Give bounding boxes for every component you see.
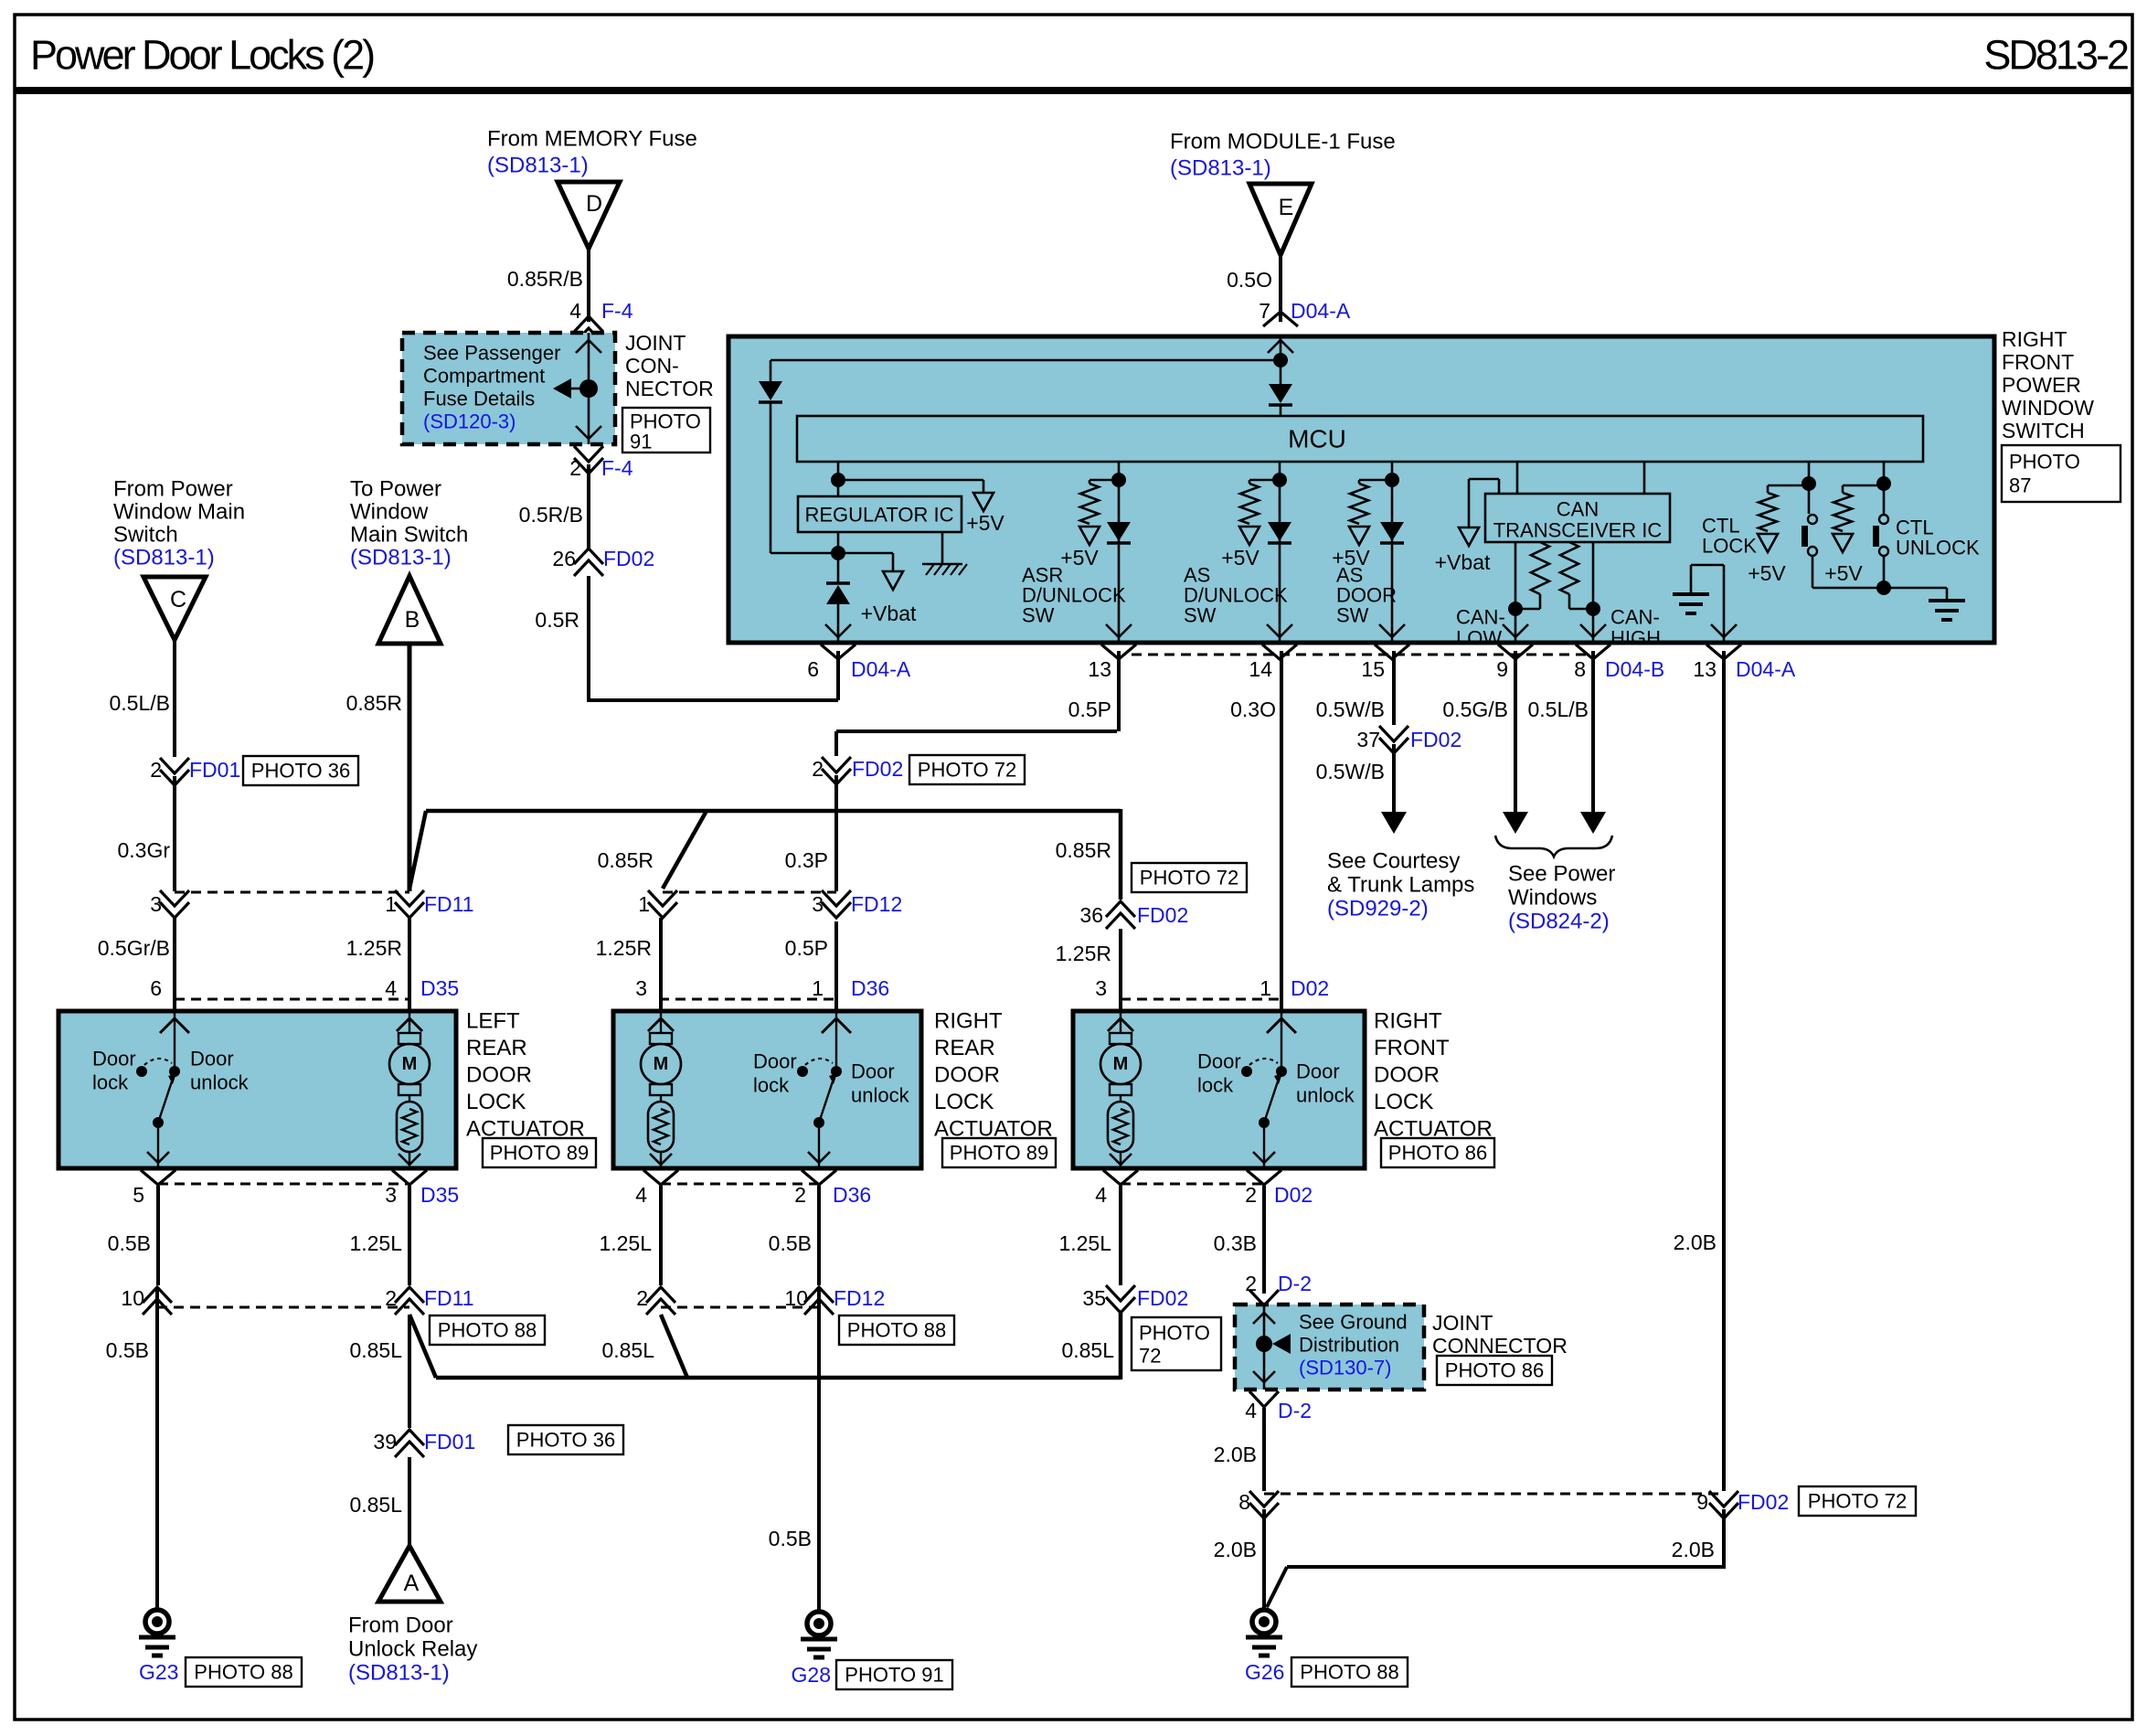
- dashed line below middle actuator: [661, 1183, 819, 1186]
- connector FD02 pin 37: [1356, 726, 1461, 753]
- wire MCU to pin 13: [1106, 462, 1132, 643]
- label (SD813-1) for E: [1170, 156, 1271, 181]
- svg-text:PHOTO 88: PHOTO 88: [438, 1319, 537, 1342]
- label From Power Window Main Switch: [113, 477, 245, 570]
- svg-text:0.5B: 0.5B: [106, 1338, 149, 1362]
- svg-text:4: 4: [635, 1183, 647, 1207]
- svg-text:LOCK: LOCK: [1374, 1090, 1433, 1114]
- svg-text:FRONT: FRONT: [2002, 350, 2074, 374]
- svg-text:NECTOR: NECTOR: [625, 377, 714, 400]
- title text: [30, 32, 374, 79]
- svg-text:36: 36: [1079, 903, 1103, 927]
- wire MCU to pin 14: [1267, 462, 1292, 643]
- label 2.0B col7: [1674, 1230, 1717, 1254]
- svg-text:0.5W/B: 0.5W/B: [1316, 698, 1385, 721]
- svg-text:FD02: FD02: [1410, 728, 1461, 751]
- wire 0.85L FD01-39 to A: [408, 1457, 411, 1546]
- thermistor middle actuator: [648, 1095, 674, 1168]
- label 0.85L at A: [349, 1493, 402, 1517]
- motor entry arrow middle: [648, 1011, 674, 1033]
- svg-text:3: 3: [635, 976, 647, 1000]
- svg-text:G28: G28: [792, 1663, 831, 1687]
- pin 6 entry arrow: [160, 1018, 189, 1033]
- wire 0.5W/B to courtesy lamps: [1381, 744, 1407, 834]
- svg-text:0.85L: 0.85L: [349, 1338, 402, 1362]
- label CTL LOCK: [1702, 515, 1757, 558]
- svg-text:7: 7: [1259, 299, 1270, 323]
- label 0.5R/B: [519, 503, 583, 527]
- pin labels 4 2 D36: [635, 1183, 871, 1207]
- svg-text:0.85R: 0.85R: [598, 848, 654, 872]
- svg-text:0.85L: 0.85L: [601, 1338, 654, 1362]
- left rear door lock actuator box: [58, 1011, 456, 1168]
- label 0.85R/B: [507, 267, 583, 291]
- svg-text:0.5B: 0.5B: [108, 1231, 151, 1255]
- svg-text:26: 26: [552, 547, 576, 570]
- svg-text:Switch: Switch: [113, 523, 178, 548]
- wire regulator to +Vbat and diode: [831, 532, 917, 625]
- wire 0.3P FD02-2 to FD12-3: [834, 775, 838, 891]
- svg-text:(SD130-7): (SD130-7): [1299, 1357, 1391, 1379]
- pin 6 label left actuator: [150, 976, 162, 1000]
- svg-text:0.85R/B: 0.85R/B: [507, 267, 583, 291]
- wire 1.25L pin4 to FD02-35: [1119, 1186, 1122, 1285]
- dashed connector line FD12: [663, 891, 836, 894]
- connector FD12 pin 10: [784, 1286, 885, 1315]
- connector FD02 pin 26: [552, 547, 654, 576]
- svg-text:0.5G/B: 0.5G/B: [1442, 698, 1508, 721]
- pin 8 label D04-B: [1574, 657, 1664, 681]
- svg-text:unlock: unlock: [190, 1071, 250, 1094]
- motor left actuator: [397, 1011, 422, 1033]
- svg-text:2: 2: [150, 758, 162, 782]
- label 2.0B lower left: [1214, 1538, 1257, 1561]
- pin 14 chevron: [1262, 644, 1297, 659]
- label 0.85L left: [349, 1338, 402, 1362]
- motor symbol right actuator: [1100, 1033, 1141, 1095]
- wire 0.5Gr/B pin3 to actuator pin 6: [173, 918, 176, 1011]
- pin 6 chevron: [821, 644, 856, 659]
- svg-text:0.3B: 0.3B: [1214, 1231, 1257, 1255]
- pin 8 chevron: [1576, 644, 1610, 659]
- svg-text:D36: D36: [833, 1183, 871, 1207]
- svg-text:RIGHT: RIGHT: [2002, 327, 2067, 351]
- svg-text:(SD813-1): (SD813-1): [1170, 156, 1271, 181]
- off-page connector C: [143, 577, 206, 640]
- wire 0.85L FD11-2 to FD01-39: [408, 1315, 411, 1428]
- pin 13 chevron: [1101, 644, 1136, 659]
- label RIGHT REAR DOOR LOCK ACTUATOR: [934, 1009, 1053, 1142]
- svg-text:PHOTO: PHOTO: [1139, 1322, 1210, 1345]
- connector pin 8: [1238, 1490, 1279, 1518]
- joint connector D-2 detail box (See Ground Distribution): [1235, 1305, 1424, 1390]
- wire CAN-LOW to pin 9: [1503, 542, 1528, 643]
- svg-text:SW: SW: [1022, 604, 1055, 627]
- wire 1.25R FD11-1 to D35-4: [408, 918, 411, 1011]
- svg-text:D35: D35: [420, 976, 459, 1000]
- svg-text:9: 9: [1696, 1490, 1708, 1514]
- svg-text:72: 72: [1139, 1345, 1161, 1368]
- svg-text:2.0B: 2.0B: [1672, 1538, 1715, 1561]
- svg-text:Window Main: Window Main: [113, 500, 245, 525]
- svg-text:A: A: [404, 1571, 420, 1596]
- label RIGHT FRONT POWER WINDOW SWITCH: [2002, 327, 2094, 442]
- pin 4 chevron right: [1103, 1170, 1138, 1185]
- label From Door Unlock Relay: [348, 1614, 477, 1686]
- svg-text:lock: lock: [753, 1074, 790, 1097]
- svg-text:(SD929-2): (SD929-2): [1327, 897, 1429, 921]
- wire 0.5R to D04-A pin 6: [587, 576, 838, 700]
- pin labels 3 1 D02: [1095, 976, 1329, 1000]
- svg-text:D04-A: D04-A: [851, 657, 911, 681]
- dashed connector line pin3 to FD11-1: [175, 891, 409, 894]
- door lock switch middle actuator: [753, 1011, 910, 1168]
- label RIGHT FRONT DOOR LOCK ACTUATOR: [1374, 1009, 1493, 1142]
- svg-text:MCU: MCU: [1288, 425, 1346, 453]
- label 0.3O: [1230, 698, 1276, 721]
- off-page connector A: [378, 1546, 441, 1602]
- diode AS D/UNLOCK: [1268, 522, 1291, 543]
- pin 15 chevron: [1375, 644, 1409, 659]
- dashed connector line under switch box: [1132, 654, 1590, 656]
- pin 9 label: [1496, 657, 1508, 681]
- pin labels 3 1 D36: [635, 976, 889, 1000]
- svg-text:4: 4: [385, 976, 397, 1000]
- svg-text:F-4: F-4: [601, 456, 633, 480]
- svg-text:FD12: FD12: [834, 1286, 885, 1310]
- svg-text:Door: Door: [1296, 1060, 1340, 1083]
- svg-text:E: E: [1279, 195, 1294, 220]
- branch arrow in F-4 box: [553, 378, 581, 399]
- right rear door lock actuator box: [613, 1011, 921, 1168]
- svg-text:PHOTO 89: PHOTO 89: [950, 1142, 1048, 1165]
- label 1.25R right: [1056, 942, 1111, 965]
- motor symbol middle actuator: [641, 1033, 681, 1095]
- wire 0.5P FD12-3 to D36-1: [834, 921, 838, 1011]
- svg-text:UNLOCK: UNLOCK: [1896, 537, 1980, 559]
- svg-text:From Power: From Power: [113, 477, 233, 502]
- wire 0.5R/B F-4 to FD02: [587, 464, 590, 548]
- svg-text:0.3P: 0.3P: [785, 848, 828, 872]
- connector FD01 pin 39: [373, 1430, 475, 1457]
- svg-text:DOOR: DOOR: [466, 1063, 532, 1088]
- svg-text:SWITCH: SWITCH: [2002, 419, 2085, 442]
- connector FD02 pin 35: [1082, 1285, 1188, 1313]
- svg-text:35: 35: [1082, 1286, 1106, 1310]
- label AS D/UNLOCK SW: [1184, 564, 1288, 627]
- svg-text:91: 91: [630, 431, 652, 453]
- svg-text:From Door: From Door: [348, 1614, 453, 1638]
- wire 0.5G/B pin9 arrow: [1503, 651, 1528, 834]
- svg-text:See Ground: See Ground: [1299, 1311, 1408, 1334]
- off-page connector B: [378, 576, 441, 644]
- diode at left rail: [759, 360, 838, 553]
- svg-text:D36: D36: [851, 976, 889, 1000]
- regulator ground: [922, 532, 967, 575]
- svg-text:Door: Door: [753, 1050, 797, 1073]
- svg-text:PHOTO 88: PHOTO 88: [847, 1319, 946, 1342]
- svg-text:PHOTO 91: PHOTO 91: [845, 1664, 943, 1687]
- svg-text:3: 3: [150, 892, 162, 916]
- pullup resistor ASR: [1060, 480, 1119, 570]
- svg-text:DOOR: DOOR: [1374, 1063, 1440, 1088]
- svg-text:PHOTO 88: PHOTO 88: [1300, 1661, 1398, 1684]
- svg-text:1.25L: 1.25L: [349, 1231, 402, 1255]
- connector FD01 pin 2: [150, 758, 240, 785]
- pin labels 5 3 D35: [133, 1183, 459, 1207]
- svg-text:LOCK: LOCK: [466, 1090, 526, 1114]
- svg-text:PHOTO 89: PHOTO 89: [490, 1142, 589, 1165]
- ground of CTL switches: [1876, 580, 1965, 620]
- dashed connector line 8 to 9: [1264, 1493, 1724, 1496]
- svg-text:0.5B: 0.5B: [769, 1231, 812, 1255]
- svg-text:POWER: POWER: [2002, 373, 2081, 397]
- label 0.5W/B lower: [1316, 760, 1385, 783]
- svg-text:HIGH: HIGH: [1610, 627, 1661, 650]
- wire 1.25R FD12-1 to D36-3: [659, 918, 663, 1011]
- wire 2.0B conn8 to G26: [1262, 1509, 1266, 1611]
- svg-text:FD02: FD02: [1738, 1490, 1789, 1514]
- label 0.85L middle: [601, 1338, 654, 1362]
- label CAN-LOW: [1456, 606, 1505, 650]
- svg-text:CAN-: CAN-: [1610, 606, 1660, 629]
- svg-text:0.5R: 0.5R: [535, 608, 579, 632]
- svg-text:(SD120-3): (SD120-3): [423, 410, 515, 433]
- wire 0.85R/B from D to F-4: [587, 249, 590, 322]
- label To Power Window Main Switch: [350, 477, 468, 570]
- svg-text:4: 4: [1095, 1183, 1107, 1207]
- svg-text:PHOTO: PHOTO: [2009, 451, 2080, 474]
- pin 2 chevron right: [1247, 1170, 1281, 1185]
- svg-text:JOINT: JOINT: [625, 331, 686, 355]
- wire MCU to CTL LOCK switch: [1802, 462, 1816, 514]
- svg-text:13: 13: [1693, 657, 1717, 681]
- wire 0.3O pin14 to D02-1: [1280, 651, 1283, 1011]
- photo box PHOTO 72 bottom: [1799, 1486, 1916, 1516]
- svg-text:See Passenger: See Passenger: [423, 342, 560, 365]
- svg-text:+5V: +5V: [1748, 561, 1786, 585]
- label 2.0B upper left: [1214, 1443, 1257, 1466]
- svg-text:FD01: FD01: [189, 758, 240, 782]
- svg-text:PHOTO 72: PHOTO 72: [1140, 867, 1238, 889]
- label 0.5R: [535, 608, 579, 632]
- svg-text:From MEMORY Fuse: From MEMORY Fuse: [487, 127, 697, 152]
- svg-text:DOOR: DOOR: [934, 1063, 1000, 1088]
- svg-text:+Vbat: +Vbat: [1435, 550, 1491, 574]
- connector D04-A pin 7 chevron: [1263, 312, 1298, 326]
- svg-text:0.85L: 0.85L: [1061, 1338, 1114, 1362]
- svg-text:& Trunk Lamps: & Trunk Lamps: [1327, 873, 1474, 898]
- svg-text:M: M: [654, 1054, 669, 1074]
- door lock switch right actuator: [1197, 1011, 1355, 1168]
- pin 13 D04-A label: [1693, 657, 1795, 681]
- pin 9 chevron: [1498, 644, 1533, 659]
- pullup resistor CTL UNLOCK: [1824, 485, 1884, 585]
- svg-text:PHOTO 72: PHOTO 72: [1808, 1490, 1907, 1513]
- svg-text:D02: D02: [1274, 1183, 1313, 1207]
- right front power window switch box: [728, 336, 1994, 643]
- pin 6 label D04-A: [807, 657, 911, 681]
- sheet number SD813-2: [1983, 32, 2128, 79]
- label LEFT REAR DOOR LOCK ACTUATOR: [466, 1009, 585, 1142]
- svg-text:LEFT: LEFT: [466, 1009, 520, 1034]
- joint connector F-4 detail box (See Passenger Compartment Fuse Details): [402, 333, 615, 444]
- wire 0.5B pin2 to FD12-10: [817, 1186, 821, 1285]
- svg-text:B: B: [405, 607, 420, 633]
- connector FD12 pin 1: [638, 890, 677, 918]
- label 0.5W/B: [1316, 698, 1385, 721]
- svg-text:2: 2: [794, 1183, 806, 1207]
- connector F-4 pin 2: [569, 446, 633, 480]
- svg-text:REAR: REAR: [934, 1036, 995, 1060]
- svg-text:6: 6: [150, 976, 162, 1000]
- svg-text:3: 3: [385, 1183, 397, 1207]
- label 0.5B middle: [769, 1231, 812, 1255]
- svg-text:Window: Window: [350, 500, 429, 525]
- photo box PHOTO 91 G28: [836, 1660, 952, 1689]
- label 1.25L right: [1058, 1231, 1111, 1255]
- label From MODULE-1 Fuse: [1170, 130, 1396, 154]
- svg-text:D: D: [586, 191, 602, 217]
- svg-text:1: 1: [638, 892, 650, 916]
- svg-text:2: 2: [1245, 1272, 1257, 1295]
- svg-text:LOCK: LOCK: [934, 1090, 994, 1114]
- svg-text:PHOTO 36: PHOTO 36: [251, 760, 350, 783]
- wire 0.5W/B pin15 to FD02-37: [1392, 651, 1396, 725]
- dashed line below left actuator: [158, 1183, 409, 1186]
- wire 1.25L pin3 to FD11-2: [408, 1186, 411, 1285]
- pullup resistor CTL LOCK: [1748, 485, 1809, 585]
- label (SD813-1) for D: [487, 154, 589, 178]
- label 0.85R right: [1056, 838, 1111, 862]
- svg-text:F-4: F-4: [601, 299, 633, 323]
- svg-text:M: M: [402, 1054, 418, 1074]
- diode up at pin 6 column: [825, 583, 851, 643]
- label AS DOOR SW: [1336, 564, 1397, 627]
- svg-text:FD11: FD11: [424, 892, 474, 916]
- connector F-4 pin 4: [569, 299, 633, 344]
- svg-text:0.5B: 0.5B: [769, 1527, 812, 1550]
- dashed connector line 10 to FD11-2: [157, 1306, 409, 1309]
- svg-text:To Power: To Power: [350, 477, 441, 502]
- svg-text:Door: Door: [92, 1048, 136, 1070]
- svg-text:Fuse Details: Fuse Details: [423, 388, 535, 410]
- svg-text:SW: SW: [1336, 604, 1369, 627]
- junction dot in F-4 box: [579, 379, 598, 398]
- svg-text:0.3O: 0.3O: [1230, 698, 1276, 721]
- ground G28: [801, 1612, 837, 1657]
- photo box PHOTO 36 bottom: [508, 1425, 623, 1454]
- label 0.5P: [1068, 698, 1111, 721]
- label 1.25R middle: [596, 936, 652, 960]
- svg-text:0.5P: 0.5P: [785, 936, 828, 960]
- svg-text:C: C: [170, 587, 186, 612]
- svg-text:2: 2: [812, 757, 824, 781]
- pin 4 chevron middle: [643, 1170, 678, 1185]
- svg-text:39: 39: [373, 1430, 397, 1454]
- off-page connector D: [558, 182, 620, 249]
- label 0.5B lower: [106, 1338, 149, 1362]
- switch CTL UNLOCK: [1873, 515, 1888, 588]
- svg-text:PHOTO 72: PHOTO 72: [918, 759, 1016, 782]
- svg-text:Door: Door: [190, 1048, 234, 1070]
- svg-text:LOCK: LOCK: [1702, 535, 1757, 558]
- dashed line below right actuator: [1121, 1183, 1264, 1186]
- svg-text:CON-: CON-: [625, 354, 679, 378]
- svg-text:PHOTO 36: PHOTO 36: [516, 1429, 615, 1452]
- label 0.3P: [785, 848, 828, 872]
- dashed connector line 2 to FD12-10: [661, 1306, 819, 1309]
- svg-text:1: 1: [1260, 976, 1271, 1000]
- svg-text:+Vbat: +Vbat: [861, 602, 917, 625]
- wire 0.85R distribution run: [409, 809, 1121, 900]
- svg-text:FD11: FD11: [424, 1286, 474, 1310]
- svg-text:D04-A: D04-A: [1736, 657, 1796, 681]
- connector D-2 pin 2: [1245, 1272, 1312, 1305]
- connector FD02 pin 9: [1696, 1490, 1789, 1518]
- svg-text:FD12: FD12: [851, 892, 902, 916]
- label JOINT CON- NECTOR: [625, 331, 714, 400]
- svg-text:1.25L: 1.25L: [1058, 1231, 1111, 1255]
- svg-text:8: 8: [1238, 1490, 1250, 1514]
- pin 7 label: [1259, 299, 1351, 323]
- connector pin 3: [150, 890, 189, 918]
- right front door lock actuator box: [1073, 1011, 1365, 1168]
- svg-text:Door: Door: [851, 1060, 895, 1083]
- connector FD11 pin 1: [385, 890, 473, 918]
- svg-text:JOINT: JOINT: [1432, 1311, 1493, 1335]
- photo box PHOTO 86 right: [1381, 1138, 1494, 1167]
- door lock switch left actuator: [92, 1011, 250, 1168]
- svg-text:4: 4: [569, 299, 581, 323]
- label 0.85R B wire: [346, 691, 402, 715]
- label G28: [792, 1663, 831, 1687]
- pin 5 chevron: [141, 1170, 175, 1185]
- photo box PHOTO 72 at FD02-2: [909, 755, 1025, 784]
- svg-text:+5V: +5V: [1060, 546, 1099, 570]
- label 0.85R left: [598, 848, 654, 872]
- svg-text:RIGHT: RIGHT: [1374, 1009, 1442, 1034]
- wire 0.5B conn10 to G23: [155, 1287, 159, 1611]
- svg-text:9: 9: [1496, 657, 1508, 681]
- pin 7 entry arrow: [1268, 336, 1293, 360]
- svg-text:0.3Gr: 0.3Gr: [117, 838, 170, 862]
- label 1.25L left: [349, 1231, 402, 1255]
- brace under power window arrows: [1495, 836, 1612, 857]
- ground G23: [139, 1610, 175, 1656]
- svg-text:1.25R: 1.25R: [1056, 942, 1111, 965]
- svg-text:6: 6: [807, 657, 819, 681]
- svg-text:0.85R: 0.85R: [346, 691, 402, 715]
- svg-text:G23: G23: [139, 1660, 178, 1684]
- dashed line above middle actuator: [659, 998, 836, 1001]
- label G23: [139, 1660, 178, 1684]
- CAN transceiver IC: [1485, 494, 1670, 542]
- svg-text:CONNECTOR: CONNECTOR: [1432, 1334, 1568, 1358]
- wire inside joint connector F-4: [576, 333, 601, 444]
- label CTL UNLOCK: [1896, 517, 1980, 559]
- dashed line above left actuator: [175, 998, 409, 1001]
- svg-text:2.0B: 2.0B: [1214, 1443, 1257, 1466]
- photo box PHOTO 91: [622, 408, 710, 453]
- svg-text:From MODULE-1 Fuse: From MODULE-1 Fuse: [1170, 130, 1396, 154]
- photo box PHOTO 88 G26: [1291, 1657, 1408, 1687]
- svg-text:(SD824-2): (SD824-2): [1508, 910, 1610, 934]
- label See Power Windows: [1508, 862, 1615, 934]
- svg-text:2: 2: [1245, 1183, 1257, 1207]
- svg-text:WINDOW: WINDOW: [2002, 396, 2094, 420]
- svg-text:+5V: +5V: [1824, 561, 1863, 585]
